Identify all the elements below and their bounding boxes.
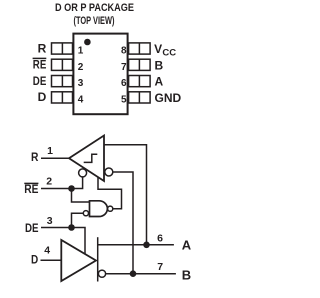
pin 3 stub box (52, 76, 73, 87)
pin 4 stub box (52, 92, 73, 103)
svg-text:7: 7 (157, 261, 163, 273)
pin 7 stub box (129, 59, 151, 70)
pin 8 stub box (129, 43, 151, 54)
svg-text:2: 2 (78, 62, 84, 73)
svg-text:(TOP VIEW): (TOP VIEW) (74, 15, 115, 27)
svg-text:7: 7 (121, 62, 127, 73)
svg-text:4: 4 (44, 244, 50, 256)
wire RE node down to gate top input (72, 189, 90, 203)
svg-text:B: B (155, 58, 164, 72)
driver inverting output bubble (98, 270, 105, 277)
wire receiver A input to A bus (105, 145, 147, 245)
svg-text:A: A (182, 238, 192, 253)
receiver enable bubble (RE, active low) (79, 169, 87, 177)
svg-text:2: 2 (46, 175, 52, 187)
wire RE to enable bubble (41, 177, 83, 189)
svg-text:1: 1 (47, 145, 53, 157)
hysteresis symbol inside receiver (84, 154, 98, 162)
svg-text:DE: DE (33, 74, 47, 88)
svg-text:3: 3 (47, 215, 53, 227)
wire DE to driver enable (41, 228, 85, 255)
svg-text:D: D (38, 90, 47, 104)
junction RE node (68, 185, 75, 192)
svg-text:GND: GND (155, 91, 182, 105)
pin 6 stub box (129, 76, 151, 87)
gate output bubble (108, 206, 113, 211)
svg-text:D: D (31, 253, 38, 267)
svg-text:6: 6 (157, 233, 163, 245)
IC package body (73, 34, 127, 115)
driver output bar (97, 237, 99, 281)
receiver amp U1 (points left) (69, 136, 104, 182)
wire B line to pin 7 (106, 273, 176, 275)
receiver B-input bubble (105, 168, 113, 176)
junction DE node (68, 224, 75, 231)
svg-text:D OR P PACKAGE: D OR P PACKAGE (55, 2, 134, 14)
svg-text:A: A (155, 75, 164, 89)
svg-text:V: V (154, 42, 162, 56)
gate lower input bubble (83, 211, 88, 216)
pin 5 stub box (129, 92, 151, 103)
junction B node (130, 270, 137, 277)
svg-text:1: 1 (78, 46, 84, 57)
svg-text:DE: DE (25, 221, 39, 235)
svg-text:R: R (31, 150, 39, 164)
svg-text:8: 8 (121, 46, 127, 57)
svg-text:6: 6 (121, 78, 127, 89)
svg-text:3: 3 (78, 78, 84, 89)
svg-text:RE: RE (33, 58, 47, 72)
pin 1 stub box (52, 43, 73, 54)
wire DE node up to gate lower input bubble (72, 213, 84, 227)
wire D to driver input (41, 259, 62, 261)
wire receiver B input bubble to B bus (113, 172, 133, 274)
svg-text:CC: CC (162, 48, 176, 59)
svg-text:R: R (38, 41, 47, 55)
wire gate output to receiver second enable (98, 177, 122, 208)
junction A node (143, 242, 150, 249)
wire R to receiver output (41, 157, 70, 159)
driver amp U3 (points right) (61, 240, 96, 281)
svg-text:B: B (182, 268, 191, 283)
svg-text:5: 5 (121, 94, 127, 105)
pin 1 indicator dot (84, 39, 91, 46)
wire A line to pin 6 (98, 244, 174, 246)
svg-text:4: 4 (78, 94, 84, 105)
enable gate U2 (AND shape) (90, 201, 108, 217)
pin 2 stub box (52, 59, 73, 70)
